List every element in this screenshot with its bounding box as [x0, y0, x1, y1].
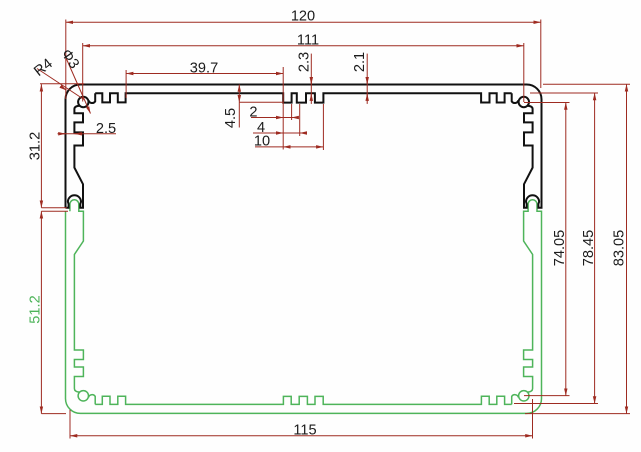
svg-text:10: 10 — [254, 134, 270, 150]
svg-text:2.5: 2.5 — [96, 121, 116, 137]
svg-text:111: 111 — [297, 32, 319, 48]
svg-text:120: 120 — [291, 9, 315, 25]
svg-text:2.3: 2.3 — [297, 52, 313, 72]
svg-text:2.1: 2.1 — [352, 52, 368, 72]
svg-text:39.7: 39.7 — [190, 61, 218, 77]
svg-text:83.05: 83.05 — [612, 230, 628, 267]
svg-text:74.05: 74.05 — [552, 230, 568, 267]
svg-text:115: 115 — [293, 423, 316, 439]
svg-text:31.2: 31.2 — [27, 132, 43, 160]
svg-text:2: 2 — [249, 104, 257, 120]
svg-text:78.45: 78.45 — [581, 230, 597, 267]
svg-text:4.5: 4.5 — [223, 108, 239, 128]
svg-text:51.2: 51.2 — [28, 295, 44, 323]
